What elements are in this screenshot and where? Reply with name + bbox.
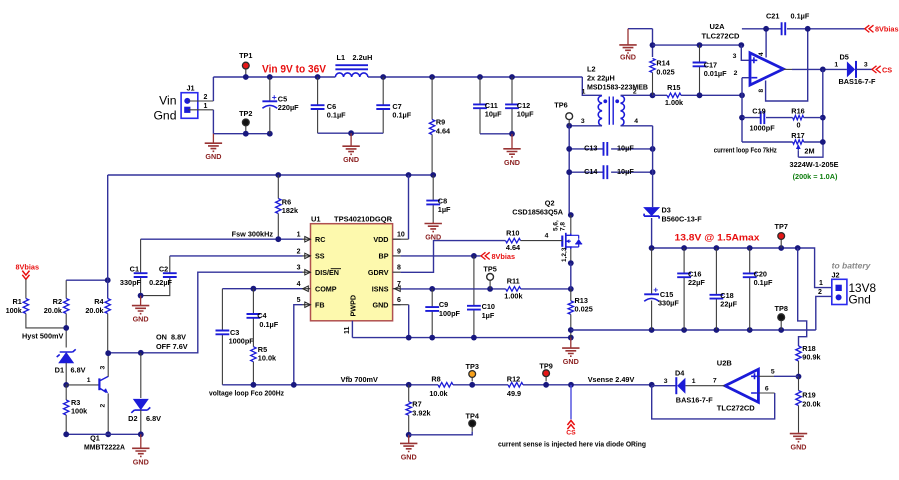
- ground GND input: [212, 134, 214, 144]
- wire J1 pin1 lead: [188, 109, 213, 111]
- capacitor C3: [221, 289, 223, 331]
- svg-text:to battery: to battery: [832, 260, 872, 270]
- svg-text:182k: 182k: [282, 206, 299, 215]
- svg-text:GND: GND: [504, 158, 520, 167]
- wire SS net: [170, 255, 303, 257]
- ground GND C1 C2: [140, 296, 142, 306]
- svg-text:1: 1: [582, 88, 586, 95]
- svg-text:+: +: [272, 92, 277, 102]
- svg-text:20.0k: 20.0k: [44, 306, 63, 315]
- svg-text:3: 3: [664, 378, 668, 385]
- wire input ground rail: [213, 133, 269, 135]
- svg-text:(200k = 1.0A): (200k = 1.0A): [793, 172, 838, 181]
- U1 pin stubs left: [303, 238, 311, 240]
- resistor R14: [652, 29, 654, 57]
- capacitor C6: [317, 77, 319, 105]
- svg-text:3.92k: 3.92k: [412, 408, 431, 417]
- svg-text:0.1µF: 0.1µF: [327, 111, 346, 120]
- svg-text:R16: R16: [791, 107, 804, 116]
- capacitor C19: [742, 117, 761, 119]
- net label 8Vbias at BP: [481, 252, 490, 259]
- svg-text:+: +: [653, 285, 658, 295]
- U1 pin stubs right: [393, 238, 401, 240]
- svg-text:8Vbias: 8Vbias: [16, 263, 40, 272]
- net label CS top: [872, 66, 881, 73]
- svg-text:R11: R11: [507, 277, 520, 286]
- svg-text:C19: C19: [752, 107, 765, 116]
- svg-text:CS: CS: [882, 65, 892, 74]
- svg-text:6.8V: 6.8V: [146, 414, 161, 423]
- resistor R9: [431, 77, 433, 120]
- wire VDD pin stub: [393, 238, 409, 240]
- svg-text:1: 1: [297, 232, 301, 239]
- svg-text:R12: R12: [507, 375, 520, 384]
- svg-text:CS: CS: [566, 430, 576, 437]
- svg-text:2: 2: [818, 289, 822, 296]
- svg-text:CSD18563Q5A: CSD18563Q5A: [512, 208, 563, 217]
- svg-text:5,6,: 5,6,: [553, 220, 560, 231]
- capacitor C5: [269, 77, 271, 101]
- svg-text:7: 7: [397, 281, 401, 288]
- svg-text:GND: GND: [563, 357, 579, 366]
- svg-text:11: 11: [344, 326, 351, 334]
- svg-text:2: 2: [100, 404, 107, 408]
- svg-text:RC: RC: [315, 235, 325, 244]
- svg-text:R8: R8: [431, 375, 440, 384]
- svg-text:C13: C13: [584, 144, 597, 153]
- svg-text:22µF: 22µF: [720, 300, 737, 309]
- svg-text:0.22µF: 0.22µF: [149, 278, 172, 287]
- svg-text:90.9k: 90.9k: [802, 353, 821, 362]
- svg-text:7,8: 7,8: [560, 222, 567, 231]
- svg-text:C7: C7: [392, 102, 401, 111]
- svg-text:0.1µF: 0.1µF: [392, 111, 411, 120]
- svg-text:Vin: Vin: [159, 94, 176, 108]
- svg-text:Fsw 300kHz: Fsw 300kHz: [232, 229, 274, 238]
- svg-text:GND: GND: [401, 452, 417, 461]
- resistor R19: [798, 377, 800, 391]
- svg-text:3: 3: [733, 53, 737, 60]
- svg-text:MMBT2222A: MMBT2222A: [84, 442, 126, 451]
- wire RC net: [141, 238, 303, 240]
- svg-text:2M: 2M: [804, 147, 814, 156]
- zener diode D1: [58, 352, 74, 363]
- svg-text:0.1µF: 0.1µF: [259, 320, 278, 329]
- svg-text:COMP: COMP: [315, 285, 337, 294]
- svg-text:Q2: Q2: [545, 199, 555, 208]
- svg-text:4: 4: [758, 52, 765, 56]
- svg-text:C1: C1: [130, 265, 139, 274]
- capacitor C7: [382, 77, 384, 105]
- svg-text:TP8: TP8: [775, 304, 788, 313]
- svg-text:C10: C10: [482, 302, 495, 311]
- svg-text:TLC272CD: TLC272CD: [717, 403, 756, 412]
- svg-text:2: 2: [734, 70, 738, 77]
- potentiometer R17: [742, 141, 793, 143]
- wire COMP net: [222, 288, 302, 290]
- test point TP3: [471, 374, 473, 381]
- svg-text:49.9: 49.9: [507, 389, 521, 398]
- resistor R1: [25, 279, 27, 298]
- svg-text:6: 6: [765, 386, 769, 393]
- svg-text:L2: L2: [587, 65, 596, 74]
- svg-text:GND: GND: [373, 301, 389, 310]
- svg-text:100k: 100k: [6, 306, 23, 315]
- ground GND C8: [432, 222, 434, 224]
- ground GND Q1: [140, 434, 142, 448]
- svg-text:FB: FB: [315, 301, 325, 310]
- wire U2B pin6 feedback loop: [758, 392, 774, 394]
- wire output bottom rail: [571, 329, 816, 331]
- test point TP2: [245, 122, 247, 133]
- svg-text:SS: SS: [315, 252, 325, 261]
- capacitor C9: [431, 289, 433, 307]
- wire Vin top rail: [213, 76, 335, 78]
- wire FB net: [294, 305, 303, 385]
- transformer L2 pin2 lead: [621, 94, 653, 96]
- svg-text:1: 1: [834, 61, 838, 68]
- wire D1 to Q1 base: [66, 384, 99, 386]
- capacitor C4: [252, 289, 254, 314]
- resistor R15: [653, 94, 668, 96]
- svg-text:0.025: 0.025: [575, 304, 593, 313]
- svg-text:20.0k: 20.0k: [802, 399, 821, 408]
- svg-text:3: 3: [864, 61, 868, 68]
- svg-text:D2: D2: [128, 414, 137, 423]
- test point TP4: [471, 423, 473, 431]
- svg-text:10.0k: 10.0k: [429, 389, 448, 398]
- svg-text:C9: C9: [439, 300, 448, 309]
- diode D3 B560C-13-F: [643, 207, 660, 216]
- svg-text:1000pF: 1000pF: [229, 337, 255, 346]
- svg-text:220µF: 220µF: [278, 103, 299, 112]
- ground GND filter: [350, 133, 352, 146]
- svg-text:9: 9: [397, 248, 401, 255]
- inductor L1: [335, 65, 368, 69]
- transformer L2 pin1 feed: [582, 77, 602, 95]
- net label CS bottom: [570, 385, 572, 420]
- wire collector node to DIS/EN: [138, 350, 144, 356]
- svg-text:10µF: 10µF: [617, 167, 634, 176]
- svg-text:TP3: TP3: [466, 362, 479, 371]
- resistor R6: [277, 175, 279, 199]
- svg-text:7: 7: [713, 378, 717, 385]
- svg-text:TP4: TP4: [466, 412, 480, 421]
- svg-text:TLC272CD: TLC272CD: [702, 31, 741, 40]
- svg-text:8: 8: [397, 265, 401, 272]
- svg-text:3224W-1-205E: 3224W-1-205E: [790, 160, 839, 169]
- test point TP5: [489, 280, 491, 289]
- svg-text:C6: C6: [327, 102, 336, 111]
- svg-text:0: 0: [796, 121, 800, 130]
- wire U2A pin3 input: [741, 45, 749, 60]
- wire J1 pin1 to ground rail: [212, 110, 214, 134]
- wire BP net: [401, 255, 481, 257]
- capacitor C8: [432, 175, 434, 201]
- svg-text:U2A: U2A: [710, 22, 726, 31]
- wire output top rail: [652, 248, 832, 288]
- svg-text:DIS/EN: DIS/EN: [315, 268, 339, 277]
- wire C6-C7 ground link: [318, 132, 384, 134]
- svg-text:1.00k: 1.00k: [665, 98, 684, 107]
- wire ISNS net: [401, 288, 506, 290]
- svg-text:TPS40210DGQR: TPS40210DGQR: [334, 215, 393, 224]
- svg-text:0.01µF: 0.01µF: [704, 69, 727, 78]
- svg-text:GND: GND: [133, 457, 149, 466]
- wire J1 pin2 riser to Vin rail: [212, 77, 214, 101]
- ground GND current amp: [628, 28, 653, 30]
- svg-text:GND: GND: [791, 443, 807, 452]
- svg-text:R14: R14: [656, 59, 670, 68]
- svg-text:ON 8.8V: ON 8.8V: [156, 333, 186, 342]
- svg-text:J1: J1: [187, 84, 195, 93]
- svg-text:TP9: TP9: [539, 361, 552, 370]
- svg-text:L1: L1: [337, 53, 346, 62]
- svg-text:4.64: 4.64: [436, 126, 451, 135]
- wire GND pin stub: [393, 304, 409, 306]
- svg-text:1: 1: [819, 280, 823, 287]
- wire DIS/EN net: [108, 272, 302, 353]
- svg-text:10µF: 10µF: [517, 109, 534, 118]
- wire R2-R4 top link: [66, 279, 108, 281]
- wire output sense drop with jog: [798, 248, 807, 346]
- svg-text:BAS16-7-F: BAS16-7-F: [676, 396, 713, 405]
- svg-text:Hyst 500mV: Hyst 500mV: [22, 331, 64, 340]
- capacitor C17: [699, 45, 701, 62]
- svg-text:6: 6: [397, 297, 401, 304]
- IC U1 TPS40210DGQR body: [311, 224, 393, 321]
- svg-text:1000pF: 1000pF: [750, 124, 776, 133]
- transistor Q1 MMBT2222A: [98, 378, 100, 390]
- resistor R8: [438, 383, 453, 388]
- svg-text:C21: C21: [766, 12, 779, 21]
- ground GND R19: [798, 432, 800, 433]
- svg-text:U1: U1: [311, 215, 321, 224]
- resistor R10: [506, 238, 521, 243]
- resistor R4: [107, 175, 109, 299]
- wire switch node column: [568, 126, 570, 215]
- diode D5 BAS16-7-F: [847, 61, 855, 77]
- svg-text:2: 2: [297, 248, 301, 255]
- wire gnd reference rail y45: [653, 44, 742, 46]
- capacitor C2: [169, 256, 171, 273]
- capacitor C21 rail: [742, 28, 782, 30]
- wire U2A pin4 power riser: [765, 29, 767, 58]
- resistor R16: [793, 115, 804, 119]
- svg-text:GND: GND: [620, 52, 636, 61]
- resistor R18: [796, 346, 801, 361]
- transformer L2 windings: [598, 96, 602, 126]
- svg-text:10µF: 10µF: [485, 109, 502, 118]
- svg-text:TP5: TP5: [483, 265, 496, 274]
- svg-text:Vin 9V to 36V: Vin 9V to 36V: [262, 64, 327, 76]
- svg-text:8Vbias: 8Vbias: [875, 25, 899, 34]
- svg-text:1µF: 1µF: [482, 311, 495, 320]
- svg-text:6.8V: 6.8V: [71, 366, 86, 375]
- svg-text:D5: D5: [840, 53, 849, 62]
- svg-text:4: 4: [297, 281, 301, 288]
- U1 pin arrows: [305, 237, 311, 242]
- wire Vfb line: [222, 384, 438, 386]
- capacitor C10: [473, 256, 475, 306]
- capacitor C15: [651, 248, 653, 294]
- svg-text:1: 1: [692, 378, 696, 385]
- svg-text:4: 4: [634, 118, 638, 125]
- svg-text:2: 2: [633, 89, 637, 96]
- wire U2A pin8 riser: [766, 29, 808, 101]
- U1 pin 11 stub and number: [351, 321, 353, 338]
- svg-text:8: 8: [758, 89, 765, 93]
- svg-text:BP: BP: [379, 252, 389, 261]
- resistor R5: [251, 347, 256, 362]
- resistor R13: [570, 289, 572, 301]
- svg-text:R10: R10: [506, 228, 519, 237]
- node Vin junctions on top rail: [243, 74, 249, 80]
- svg-text:R15: R15: [667, 83, 680, 92]
- svg-text:1: 1: [204, 103, 208, 110]
- wire VDD feed: [408, 175, 410, 239]
- svg-text:8Vbias: 8Vbias: [492, 252, 516, 261]
- svg-text:TP2: TP2: [239, 109, 252, 118]
- svg-text:GND: GND: [343, 155, 359, 164]
- svg-text:0.1µF: 0.1µF: [791, 12, 810, 21]
- ground GND R7: [408, 435, 410, 444]
- svg-text:Gnd: Gnd: [849, 293, 871, 307]
- svg-text:current sense is injected here: current sense is injected here via diode…: [498, 439, 646, 448]
- svg-text:U2B: U2B: [717, 358, 733, 367]
- net label 8Vbias top: [865, 25, 874, 32]
- test point TP9: [545, 373, 547, 381]
- svg-text:TP1: TP1: [239, 51, 252, 60]
- svg-text:100pF: 100pF: [439, 309, 461, 318]
- wire C11-C12 ground link: [480, 133, 512, 135]
- svg-text:B560C-13-F: B560C-13-F: [662, 215, 703, 224]
- svg-text:1µF: 1µF: [438, 205, 451, 214]
- svg-text:VDD: VDD: [373, 235, 388, 244]
- node input ground junctions: [243, 131, 249, 137]
- capacitor C20: [749, 248, 751, 273]
- svg-text:GDRV: GDRV: [368, 268, 389, 277]
- svg-text:D4: D4: [675, 368, 685, 377]
- resistor R3: [65, 385, 67, 400]
- svg-text:5: 5: [771, 368, 775, 375]
- wire D3 anode column: [652, 126, 654, 207]
- zener diode D2: [140, 353, 142, 398]
- svg-text:MSD1583-223MEB: MSD1583-223MEB: [587, 83, 648, 92]
- svg-text:ISNS: ISNS: [372, 285, 389, 294]
- capacitor C11: [479, 77, 481, 104]
- wire TP4 to R7 foot: [409, 432, 473, 435]
- wire emitter ground rail: [66, 433, 141, 435]
- svg-text:D3: D3: [662, 206, 671, 215]
- svg-text:TP6: TP6: [554, 101, 567, 110]
- ground GND main bus: [570, 338, 572, 349]
- resistor R12: [508, 383, 523, 388]
- wire feedback column: [822, 69, 824, 142]
- resistor R2: [65, 280, 67, 298]
- test point TP6: [568, 120, 570, 126]
- transformer L2 pin3 lead: [569, 125, 602, 127]
- wire U2A output: [783, 68, 792, 70]
- svg-text:3: 3: [100, 366, 107, 370]
- svg-text:voltage loop Fco 200Hz: voltage loop Fco 200Hz: [209, 388, 284, 397]
- svg-text:1: 1: [87, 377, 91, 384]
- svg-text:10µF: 10µF: [617, 144, 634, 153]
- test point TP7: [780, 236, 782, 248]
- svg-text:BAS16-7-F: BAS16-7-F: [839, 77, 876, 86]
- svg-text:C2: C2: [159, 265, 168, 274]
- wire analog ground bus: [352, 337, 570, 339]
- svg-text:330µF: 330µF: [658, 299, 679, 308]
- svg-text:GND: GND: [133, 315, 149, 324]
- svg-text:J2: J2: [832, 270, 840, 279]
- capacitor C18: [715, 248, 717, 295]
- svg-text:0.025: 0.025: [656, 67, 674, 76]
- test point TP1: [245, 66, 247, 77]
- svg-text:330pF: 330pF: [120, 278, 142, 287]
- capacitor C12: [511, 77, 513, 104]
- svg-text:10: 10: [397, 232, 405, 239]
- svg-text:100k: 100k: [71, 406, 88, 415]
- svg-text:2.2uH: 2.2uH: [353, 53, 373, 62]
- svg-text:5: 5: [297, 297, 301, 304]
- svg-text:R17: R17: [791, 131, 804, 140]
- wire U2B pin5 input: [758, 375, 774, 377]
- svg-text:22µF: 22µF: [688, 278, 705, 287]
- svg-text:2: 2: [204, 94, 208, 101]
- ground GND C11 C12: [511, 134, 513, 149]
- svg-text:13.8V @ 1.5Amax: 13.8V @ 1.5Amax: [675, 233, 761, 244]
- svg-text:1.00k: 1.00k: [504, 292, 523, 301]
- svg-text:3: 3: [581, 118, 585, 125]
- svg-text:GND: GND: [205, 152, 221, 161]
- svg-text:Vfb 700mV: Vfb 700mV: [341, 375, 378, 384]
- capacitor C13 row: [569, 148, 603, 150]
- wire VIN distribution line y175: [108, 174, 434, 176]
- potentiometer R17 wiper: [798, 142, 823, 157]
- svg-text:OFF 7.6V: OFF 7.6V: [156, 342, 188, 351]
- svg-text:C14: C14: [584, 167, 598, 176]
- svg-text:1,2,3: 1,2,3: [561, 247, 568, 262]
- svg-text:D1: D1: [55, 366, 64, 375]
- test point TP8: [780, 317, 782, 330]
- svg-text:4: 4: [545, 233, 549, 240]
- wire J1 pin2 lead: [188, 100, 213, 102]
- resistor R7: [408, 385, 410, 402]
- wire J2 pin2 ground return: [816, 296, 832, 330]
- diode D4 BAS16-7-F: [677, 378, 685, 394]
- wire U2A pin2 input: [742, 77, 749, 79]
- svg-text:20.0k: 20.0k: [85, 306, 104, 315]
- svg-text:current loop Fco 7kHz: current loop Fco 7kHz: [714, 146, 777, 155]
- wire GDRV net: [401, 241, 506, 273]
- connector J1: [181, 93, 198, 119]
- svg-text:Gnd: Gnd: [153, 109, 176, 123]
- capacitor C1: [140, 239, 142, 273]
- svg-text:2x 22µH: 2x 22µH: [587, 74, 615, 83]
- transformer L2 pin4 lead: [621, 125, 653, 127]
- capacitor C14 row: [569, 171, 603, 173]
- svg-text:3: 3: [297, 265, 301, 272]
- svg-text:10.0k: 10.0k: [258, 353, 277, 362]
- transistor Q2 CSD18563Q5A: [568, 212, 574, 218]
- svg-text:TP7: TP7: [775, 222, 788, 231]
- svg-text:PWPD: PWPD: [349, 295, 358, 317]
- svg-text:0.1µF: 0.1µF: [754, 278, 773, 287]
- capacitor C16: [683, 248, 685, 273]
- svg-text:Vsense 2.49V: Vsense 2.49V: [588, 375, 635, 384]
- resistor R11: [506, 287, 521, 292]
